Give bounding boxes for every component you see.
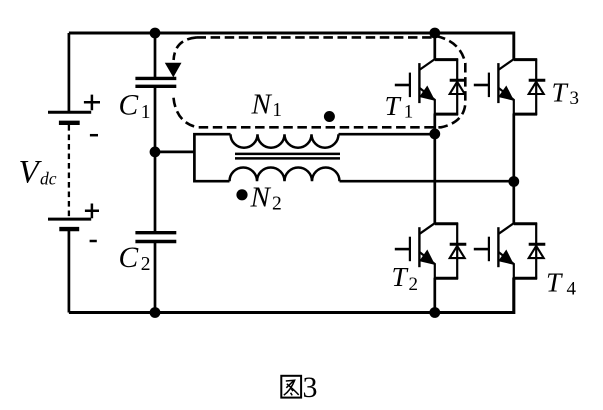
svg-text:C: C — [119, 89, 139, 121]
svg-text:T: T — [385, 90, 402, 121]
capacitor C1 plates — [135, 78, 176, 86]
wire transformer left bracket — [194, 134, 230, 181]
transistor T4 — [474, 223, 546, 280]
svg-text:T: T — [392, 261, 409, 292]
svg-text:1: 1 — [272, 100, 282, 121]
wire leg A lower (T2 emitter) — [433, 278, 436, 313]
wire left rail lower — [68, 229, 71, 312]
svg-text:N: N — [250, 182, 272, 214]
dashed loop top-left corner — [174, 37, 197, 60]
battery cell B1 short plate — [59, 121, 80, 125]
svg-text:dc: dc — [40, 168, 57, 188]
wire N2 to node B — [340, 180, 514, 183]
battery cell B2 short plate — [59, 227, 79, 231]
battery B2 minus sign — [90, 240, 97, 243]
node bottom-left — [150, 307, 161, 318]
wire N1 to node A — [339, 133, 435, 136]
wire leg A upper (T1 collector) — [433, 33, 436, 61]
svg-text:T: T — [552, 76, 569, 107]
node center tap — [150, 147, 161, 158]
wire center-tap feed — [155, 151, 194, 154]
transformer core — [235, 154, 340, 159]
dot polarity N1 — [324, 111, 335, 122]
svg-text:3: 3 — [570, 88, 580, 109]
wire leg A middle — [433, 114, 436, 225]
svg-text:1: 1 — [141, 102, 151, 123]
svg-text:2: 2 — [272, 194, 282, 215]
wire capacitor rail top segment — [154, 33, 157, 78]
transistor T2 — [395, 223, 467, 280]
capacitor C2 plates — [135, 233, 176, 242]
winding N2 — [230, 167, 340, 181]
battery B1 plus sign — [84, 95, 100, 111]
node bottom leg A — [429, 307, 440, 318]
dashed loop arrowhead — [166, 64, 180, 77]
battery cell B2 long plate — [48, 218, 91, 221]
node top leg A — [429, 28, 440, 39]
battery cell B1 long plate — [48, 111, 91, 114]
svg-text:N: N — [251, 89, 273, 121]
transistor T3 — [474, 59, 546, 116]
battery B2 plus sign — [85, 204, 99, 219]
wire left rail upper — [68, 33, 71, 112]
svg-text:2: 2 — [141, 254, 151, 275]
svg-text:C: C — [119, 242, 139, 274]
transistor T1 — [395, 59, 467, 116]
battery B1 minus sign — [90, 134, 98, 137]
caption glyph 图 — [281, 376, 301, 398]
svg-text:4: 4 — [567, 278, 577, 299]
svg-text:T: T — [546, 267, 563, 298]
wire top rail — [69, 33, 514, 61]
wire leg B middle — [512, 114, 515, 225]
wire bottom rail — [69, 278, 514, 313]
svg-text:1: 1 — [404, 102, 414, 123]
node top-left — [150, 28, 161, 39]
dashed loop right cap around D1 — [173, 36, 465, 127]
wire capacitor rail middle segment — [154, 86, 157, 232]
dot polarity N2 — [236, 189, 247, 200]
node B — [508, 176, 519, 187]
winding N1 — [231, 134, 339, 148]
svg-text:2: 2 — [409, 274, 419, 295]
wire capacitor rail bottom segment — [154, 242, 157, 313]
battery dashed middle wire — [68, 125, 70, 217]
svg-text:3: 3 — [303, 371, 318, 404]
node A — [429, 129, 440, 140]
svg-text:V: V — [19, 154, 43, 190]
dashed loop top edge — [197, 36, 434, 39]
